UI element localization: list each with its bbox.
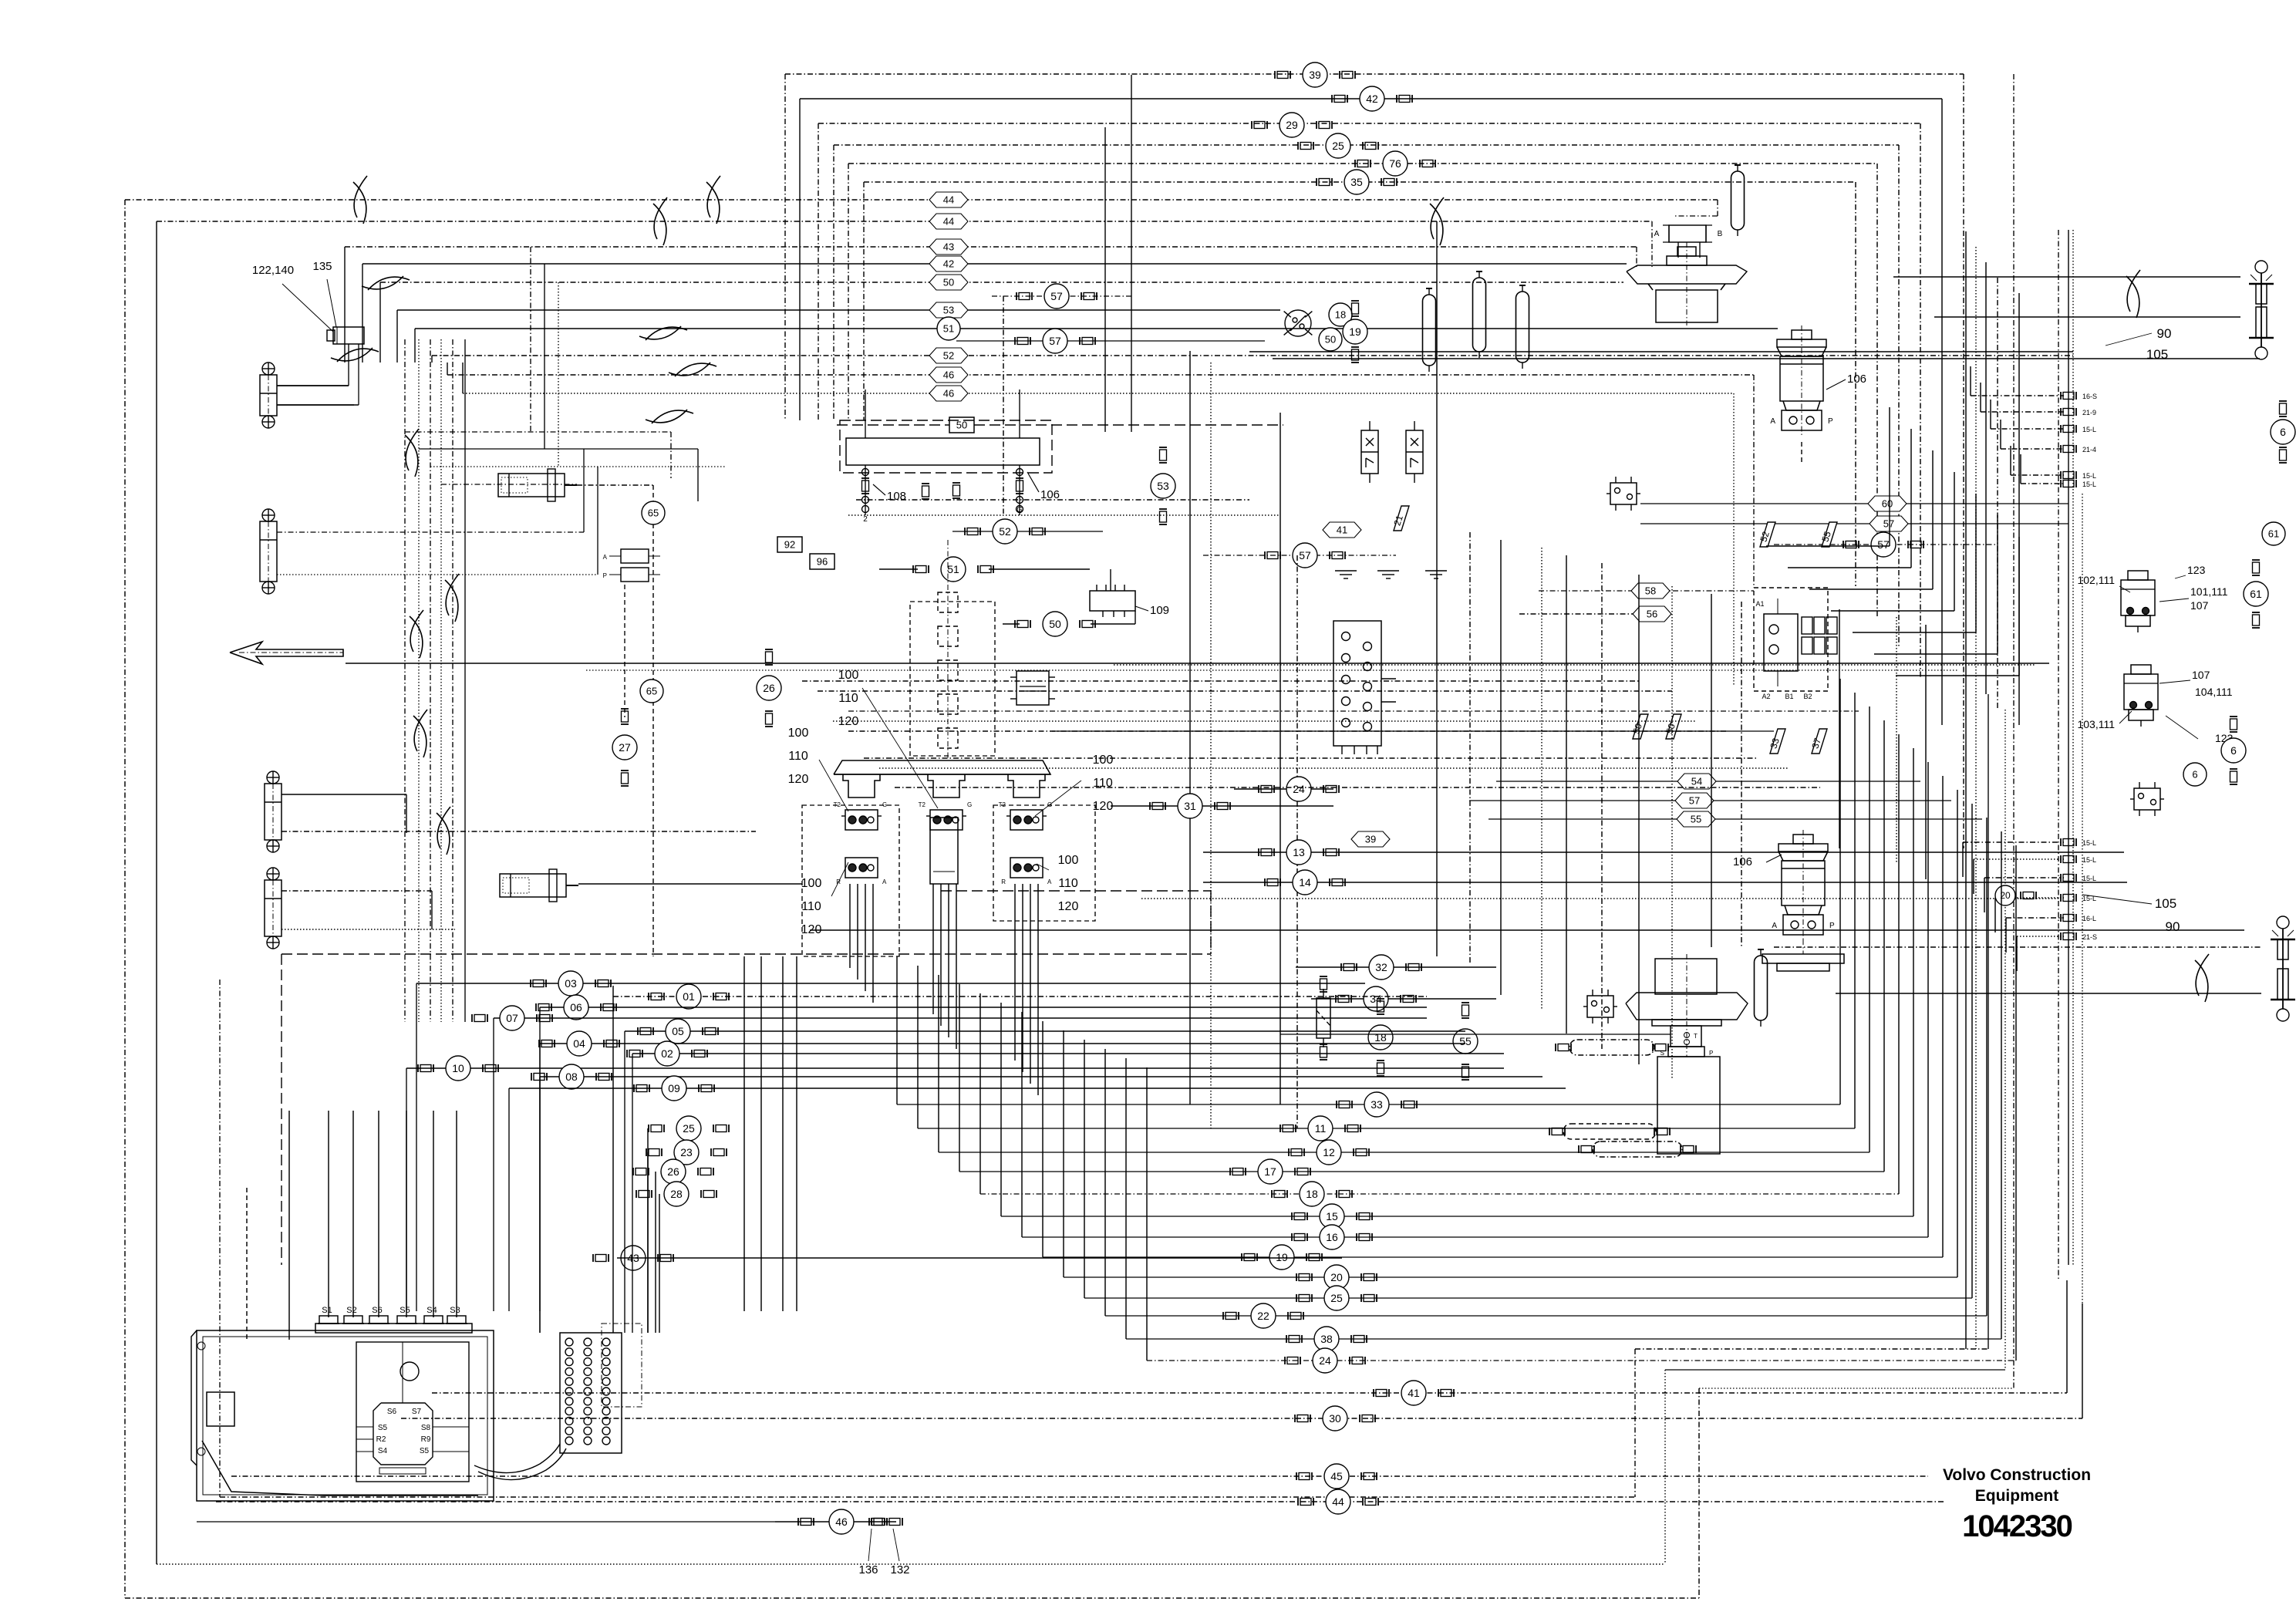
svg-text:16: 16 <box>1326 1231 1338 1243</box>
svg-text:24: 24 <box>1319 1354 1331 1367</box>
svg-text:24: 24 <box>1293 783 1305 795</box>
svg-text:100: 100 <box>1093 754 1114 767</box>
svg-text:100: 100 <box>801 877 822 890</box>
svg-text:S4: S4 <box>426 1306 437 1315</box>
svg-text:57: 57 <box>1877 538 1890 551</box>
svg-text:76: 76 <box>1389 157 1401 170</box>
svg-text:136: 136 <box>858 1563 878 1576</box>
svg-text:100: 100 <box>1058 854 1079 867</box>
svg-text:G: G <box>967 801 972 808</box>
svg-text:103,111: 103,111 <box>2077 718 2115 730</box>
svg-text:120: 120 <box>1058 900 1079 913</box>
svg-text:18: 18 <box>1306 1188 1318 1200</box>
svg-text:44: 44 <box>943 194 954 206</box>
svg-text:S5: S5 <box>378 1424 388 1432</box>
svg-text:55: 55 <box>1459 1035 1472 1047</box>
svg-text:90: 90 <box>2157 326 2172 341</box>
svg-text:39: 39 <box>1309 69 1321 81</box>
svg-text:50: 50 <box>1049 618 1061 630</box>
svg-text:65: 65 <box>648 508 659 519</box>
svg-text:132: 132 <box>890 1563 909 1576</box>
svg-text:44: 44 <box>1332 1496 1344 1508</box>
svg-text:42: 42 <box>943 258 954 270</box>
svg-text:90: 90 <box>2166 919 2180 934</box>
svg-text:18: 18 <box>1374 1031 1387 1044</box>
svg-text:27: 27 <box>619 741 631 754</box>
svg-text:60: 60 <box>1882 498 1893 510</box>
svg-text:16-S: 16-S <box>2082 393 2097 400</box>
svg-text:10: 10 <box>452 1062 464 1074</box>
svg-text:43: 43 <box>943 241 954 253</box>
svg-text:28: 28 <box>670 1188 683 1200</box>
svg-text:110: 110 <box>801 900 821 913</box>
svg-text:110: 110 <box>838 692 858 705</box>
svg-text:R2: R2 <box>376 1435 386 1444</box>
svg-text:102,111: 102,111 <box>2077 574 2115 586</box>
svg-text:106: 106 <box>1733 855 1752 868</box>
svg-text:101,111: 101,111 <box>2190 585 2228 598</box>
svg-text:38: 38 <box>1320 1333 1333 1345</box>
svg-text:S6: S6 <box>387 1408 397 1416</box>
svg-text:19: 19 <box>1276 1251 1288 1263</box>
svg-text:46: 46 <box>835 1516 848 1528</box>
svg-text:25: 25 <box>683 1122 695 1135</box>
svg-text:35: 35 <box>1350 176 1363 188</box>
svg-text:32: 32 <box>1375 961 1387 973</box>
svg-text:56: 56 <box>1647 609 1657 620</box>
svg-text:135: 135 <box>312 260 332 273</box>
svg-text:41: 41 <box>1408 1387 1420 1399</box>
svg-text:21-S: 21-S <box>2082 933 2097 941</box>
svg-text:03: 03 <box>565 977 577 990</box>
svg-text:S5: S5 <box>400 1306 410 1315</box>
svg-text:B1: B1 <box>1785 693 1793 700</box>
svg-text:105: 105 <box>2155 896 2176 911</box>
svg-text:R9: R9 <box>421 1435 431 1444</box>
svg-text:50: 50 <box>943 277 954 288</box>
svg-text:31: 31 <box>1184 800 1196 812</box>
svg-text:57: 57 <box>1049 335 1061 347</box>
svg-text:02: 02 <box>661 1047 673 1060</box>
svg-text:16-L: 16-L <box>2082 915 2096 922</box>
svg-text:110: 110 <box>788 750 808 763</box>
svg-text:58: 58 <box>1645 585 1656 597</box>
svg-text:55: 55 <box>1691 814 1701 825</box>
svg-text:33: 33 <box>1371 1098 1383 1111</box>
svg-text:18: 18 <box>1335 309 1346 321</box>
svg-text:13: 13 <box>1293 846 1305 858</box>
svg-text:53: 53 <box>943 305 954 316</box>
svg-text:P: P <box>1829 922 1835 930</box>
svg-text:57: 57 <box>1689 795 1700 807</box>
svg-text:A: A <box>1770 417 1775 426</box>
svg-text:17: 17 <box>1264 1165 1276 1178</box>
svg-text:A: A <box>1654 230 1660 238</box>
svg-text:122,140: 122,140 <box>252 264 294 277</box>
svg-text:29: 29 <box>1286 119 1298 131</box>
svg-text:07: 07 <box>506 1012 518 1024</box>
svg-text:A1: A1 <box>1755 600 1764 608</box>
svg-text:109: 109 <box>1150 604 1169 617</box>
svg-text:123: 123 <box>2187 564 2206 576</box>
svg-text:15-L: 15-L <box>2082 856 2096 864</box>
svg-text:14: 14 <box>1299 876 1311 889</box>
svg-text:S2: S2 <box>346 1306 356 1315</box>
svg-text:S6: S6 <box>372 1306 382 1315</box>
svg-text:108: 108 <box>887 490 906 503</box>
svg-text:21-9: 21-9 <box>2082 409 2096 416</box>
svg-text:57: 57 <box>1050 290 1063 302</box>
svg-text:41: 41 <box>1337 524 1347 536</box>
svg-text:09: 09 <box>668 1082 680 1094</box>
svg-text:110: 110 <box>1058 877 1078 890</box>
svg-text:R: R <box>1001 878 1006 885</box>
svg-text:15-L: 15-L <box>2082 481 2096 488</box>
svg-text:1042330: 1042330 <box>1962 1509 2072 1543</box>
svg-text:50: 50 <box>956 420 967 431</box>
svg-text:51: 51 <box>947 563 959 575</box>
svg-text:57: 57 <box>1299 549 1311 561</box>
svg-text:107: 107 <box>2190 599 2209 612</box>
svg-text:A: A <box>1047 878 1052 885</box>
svg-text:44: 44 <box>943 216 954 228</box>
svg-text:54: 54 <box>1691 776 1702 787</box>
svg-text:57: 57 <box>1883 518 1894 530</box>
svg-text:30: 30 <box>1329 1412 1341 1425</box>
svg-text:22: 22 <box>1257 1310 1269 1322</box>
svg-text:06: 06 <box>570 1001 582 1013</box>
svg-text:92: 92 <box>784 539 795 551</box>
svg-text:S7: S7 <box>412 1408 422 1416</box>
svg-text:61: 61 <box>2250 588 2262 600</box>
svg-text:23: 23 <box>680 1146 693 1158</box>
svg-text:P: P <box>603 572 607 579</box>
svg-text:21-4: 21-4 <box>2082 446 2096 454</box>
svg-text:25: 25 <box>1332 140 1344 152</box>
svg-text:52: 52 <box>999 525 1011 538</box>
svg-text:107: 107 <box>2192 669 2210 681</box>
svg-text:15-L: 15-L <box>2082 839 2096 847</box>
svg-text:15-L: 15-L <box>2082 426 2096 433</box>
svg-text:S4: S4 <box>378 1447 388 1455</box>
svg-text:53: 53 <box>1157 480 1169 492</box>
svg-text:S1: S1 <box>322 1306 332 1315</box>
svg-text:Volvo Construction: Volvo Construction <box>1943 1466 2091 1484</box>
svg-text:12: 12 <box>1323 1146 1335 1158</box>
svg-text:P: P <box>1828 417 1833 426</box>
svg-text:Equipment: Equipment <box>1975 1487 2059 1505</box>
svg-text:120: 120 <box>788 773 809 786</box>
svg-text:S5: S5 <box>420 1447 430 1455</box>
svg-text:T2: T2 <box>919 801 926 808</box>
svg-text:20: 20 <box>1330 1271 1343 1283</box>
svg-text:46: 46 <box>943 388 954 400</box>
svg-text:2: 2 <box>863 515 868 524</box>
svg-text:39: 39 <box>1365 834 1376 845</box>
svg-text:104,111: 104,111 <box>2195 686 2233 698</box>
svg-text:08: 08 <box>565 1071 578 1083</box>
svg-text:15-L: 15-L <box>2082 875 2096 882</box>
svg-text:B2: B2 <box>1803 693 1812 700</box>
svg-text:05: 05 <box>672 1025 684 1037</box>
svg-text:11: 11 <box>1315 1122 1327 1135</box>
svg-text:15-L: 15-L <box>2082 472 2096 480</box>
svg-text:01: 01 <box>683 990 695 1003</box>
svg-text:A: A <box>603 554 608 561</box>
svg-text:105: 105 <box>2146 347 2168 362</box>
svg-text:65: 65 <box>646 686 657 697</box>
svg-text:S3: S3 <box>450 1306 460 1315</box>
svg-text:6: 6 <box>2192 769 2197 781</box>
svg-text:106: 106 <box>1847 373 1866 386</box>
svg-text:6: 6 <box>2280 426 2286 438</box>
svg-text:61: 61 <box>2268 528 2279 540</box>
svg-text:04: 04 <box>573 1037 585 1050</box>
svg-text:26: 26 <box>667 1165 679 1178</box>
svg-text:45: 45 <box>1330 1470 1343 1482</box>
svg-text:T: T <box>1694 1033 1698 1040</box>
svg-text:P: P <box>1709 1050 1713 1057</box>
svg-text:A: A <box>1772 922 1777 930</box>
svg-text:6: 6 <box>2230 744 2237 757</box>
svg-text:S8: S8 <box>421 1424 431 1432</box>
svg-text:B: B <box>1718 230 1723 238</box>
svg-text:25: 25 <box>1330 1292 1343 1304</box>
svg-text:15: 15 <box>1326 1210 1338 1222</box>
svg-text:96: 96 <box>817 556 828 568</box>
svg-text:26: 26 <box>763 682 775 694</box>
svg-text:A2: A2 <box>1762 693 1770 700</box>
svg-text:42: 42 <box>1366 93 1378 105</box>
svg-text:46: 46 <box>943 369 954 381</box>
svg-text:100: 100 <box>788 727 809 740</box>
svg-text:52: 52 <box>943 350 954 362</box>
svg-text:50: 50 <box>1325 334 1336 346</box>
svg-text:19: 19 <box>1349 325 1361 338</box>
svg-text:51: 51 <box>943 323 954 335</box>
svg-text:A: A <box>882 878 887 885</box>
